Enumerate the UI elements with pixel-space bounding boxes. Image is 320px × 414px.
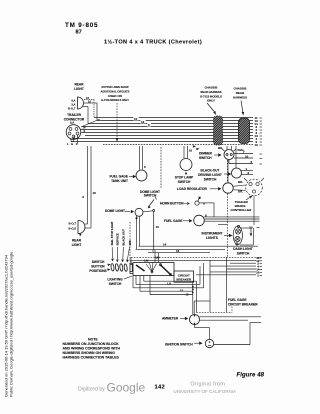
svg-text:10: 10 [245,154,249,158]
svg-text:13: 13 [176,249,180,253]
svg-text:18: 18 [189,149,193,153]
svg-text:87: 87 [76,30,82,36]
svg-text:INSTRUMENT: INSTRUMENT [202,232,223,236]
svg-text:Original from: Original from [190,381,225,387]
svg-text:CONNECTOR: CONNECTOR [64,117,85,121]
svg-text:TANK UNIT: TANK UNIT [111,179,128,183]
svg-text:AND WIRING CORRESPOND WITH: AND WIRING CORRESPOND WITH [63,347,121,351]
svg-text:LIGHTS: LIGHTS [206,236,218,240]
svg-text:FUEL GAGE: FUEL GAGE [228,298,247,302]
svg-text:G-7113 MODELS: G-7113 MODELS [200,94,222,98]
svg-text:16: 16 [93,191,97,195]
svg-text:FUEL GAGE: FUEL GAGE [164,219,183,223]
svg-text:SWITCH: SWITCH [237,251,250,255]
svg-text:15: 15 [180,289,183,293]
svg-text:SER. STOP LIGHT: SER. STOP LIGHT [110,221,114,245]
svg-text:1½-TON 4 x 4 TRUCK (Chevrole: 1½-TON 4 x 4 TRUCK (Chevrolet) [104,39,202,46]
svg-text:UNIVERSITY OF CALIFORNIA: UNIVERSITY OF CALIFORNIA [173,389,236,394]
svg-text:13: 13 [255,143,259,147]
svg-text:SWITCH: SWITCH [204,177,217,181]
svg-text:LOAD REGULATOR: LOAD REGULATOR [177,187,208,191]
svg-text:OFF: OFF [128,240,132,246]
svg-text:HORN BUTTON: HORN BUTTON [160,202,184,206]
svg-text:CONTROLLER: CONTROLLER [231,208,253,212]
svg-text:8: 8 [203,201,205,205]
svg-text:DOME LIGHT: DOME LIGHT [105,209,125,213]
svg-text:FUEL GAGE: FUEL GAGE [109,175,128,179]
svg-text:G-7113 MODELS ONLY: G-7113 MODELS ONLY [101,98,129,102]
svg-text:HARNESS: HARNESS [233,95,247,99]
svg-text:SWITCH: SWITCH [199,156,212,160]
svg-text:G: G [71,142,73,146]
svg-text:6: 6 [144,165,146,169]
svg-text:10: 10 [134,117,138,121]
svg-text:L,B: L,B [167,282,171,286]
svg-text:USED ON: USED ON [108,94,122,98]
svg-text:ADDITIONAL CIRCUITS: ADDITIONAL CIRCUITS [101,89,130,93]
svg-text:8: 8 [82,195,84,199]
svg-text:BLACK OUT: BLACK OUT [122,229,126,246]
svg-text:1,M: 1,M [144,259,148,263]
svg-text:DRIVING LIGHT: DRIVING LIGHT [198,173,222,177]
svg-text:Public Domain, Google-digitize: Public Domain, Google-digitized / htt​p:… [9,251,14,397]
svg-text:Digitized by: Digitized by [78,386,105,392]
svg-text:10: 10 [156,225,160,229]
svg-text:DOTTED LINES SHOW: DOTTED LINES SHOW [102,85,129,89]
svg-text:5,A: 5,A [71,99,75,103]
svg-text:NUMBERS ON JUNCTION BLOCK: NUMBERS ON JUNCTION BLOCK [63,342,120,346]
svg-text:NUMBERS SHOWN ON WIRING: NUMBERS SHOWN ON WIRING [63,351,116,355]
svg-text:13: 13 [141,120,145,124]
svg-text:AMMETER: AMMETER [162,317,179,321]
svg-text:TM 9-805: TM 9-805 [65,22,98,29]
svg-text:BREAKER: BREAKER [176,277,192,281]
svg-text:STOP LAMP: STOP LAMP [175,176,194,180]
svg-text:CHASSIS: CHASSIS [205,86,218,90]
svg-text:Google: Google [107,381,146,395]
svg-text:SWITCH: SWITCH [109,282,122,286]
svg-text:SWITCH: SWITCH [178,180,191,184]
svg-text:B-O,S: B-O,S [69,227,77,231]
svg-text:10: 10 [88,100,91,104]
svg-text:L: L [67,142,69,146]
svg-text:LIGHT: LIGHT [72,243,82,247]
svg-text:SWITCH: SWITCH [92,260,105,264]
svg-text:NOTE: NOTE [88,338,98,342]
svg-text:B-O,T: B-O,T [69,222,77,226]
svg-text:14: 14 [83,125,86,129]
svg-text:12: 12 [86,96,89,100]
svg-text:14: 14 [163,243,167,247]
svg-text:10: 10 [249,226,253,230]
svg-text:LIGHT: LIGHT [74,87,84,91]
svg-text:3,A: 3,A [71,103,75,107]
svg-text:DR.: DR. [238,190,243,194]
svg-text:BR.: BR. [238,180,243,184]
svg-text:DASH LIGHT: DASH LIGHT [233,247,253,251]
svg-text:HARNESS CONNECTION TABLES: HARNESS CONNECTION TABLES [63,356,120,360]
svg-text:9,A: 9,A [70,121,74,125]
svg-text:SERVICE: SERVICE [116,233,120,245]
svg-text:B-O,T: B-O,T [68,107,76,111]
svg-text:CHASSIS: CHASSIS [234,87,247,91]
svg-text:ONLY: ONLY [207,99,215,103]
svg-text:DIMMER: DIMMER [199,152,213,156]
svg-text:BLACK-OUT: BLACK-OUT [201,169,220,173]
svg-text:SWITCH: SWITCH [144,194,157,198]
svg-text:REAR HARNESS: REAR HARNESS [201,90,222,94]
svg-text:BUTTON: BUTTON [91,264,105,268]
svg-text:POSITIONS: POSITIONS [89,269,106,273]
svg-text:Figure 48: Figure 48 [237,373,265,379]
svg-text:REAR: REAR [236,91,245,95]
svg-text:142: 142 [155,385,166,391]
svg-text:IGNITION SWITCH: IGNITION SWITCH [165,342,193,346]
svg-text:LIGHTING: LIGHTING [107,278,123,282]
